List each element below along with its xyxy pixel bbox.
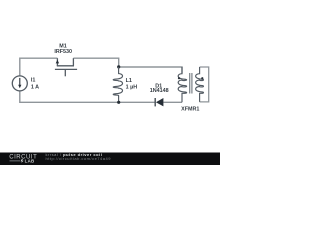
XFMR1 primary polarity dot [178,77,180,79]
svg-text:IRF530: IRF530 [54,49,72,55]
svg-text:XFMR1: XFMR1 [181,107,199,113]
current source I1 [12,76,27,91]
svg-text:1 A: 1 A [31,85,39,91]
CircuitLab logo [9,154,37,163]
node A junction dot [117,65,120,68]
wire bottom rail node B to D1 cathode [119,101,156,103]
transformer XFMR1 primary winding [178,67,186,102]
label I1 name [31,78,36,84]
wire secondary loop (XFMR1 secondary shorting loop) [200,67,209,102]
wire top-middle rail (M1 drain to node A drop) [73,58,118,67]
label D1 value 1N4148 [150,88,169,94]
wire top-right rail (node A to XFMR1 primary top) [119,67,182,73]
svg-text:1 µH: 1 µH [126,85,138,91]
node B junction dot [117,101,120,104]
footer text line 2: url [46,156,112,161]
svg-text:1N4148: 1N4148 [150,88,169,94]
wire D1 anode to XFMR1 primary bottom [163,101,182,103]
label L1 name [126,78,132,84]
wire bottom-left rail (I1 bottom to node B) [20,91,119,103]
transformer XFMR1 secondary winding [196,67,204,102]
label I1 value 1 A [31,85,39,91]
label L1 value 1 µH [126,85,138,91]
label M1 name [59,44,67,50]
inductor L1 [113,67,122,102]
transistor M1 (NMOS, gate down) [55,58,77,76]
label D1 name [155,83,162,89]
svg-text:LAB: LAB [25,159,35,164]
transformer XFMR1 core [190,73,192,94]
svg-text:L1: L1 [126,78,132,84]
XFMR1 secondary polarity dot [201,77,203,79]
footer text line 1: krrsal / pulse driver coil [46,152,103,157]
wire top-left rail (I1 top to M1 source) [20,58,58,76]
label M1 value IRF530 [54,49,72,55]
diode D1 (cathode left) [155,98,163,106]
footer bar [0,153,220,166]
svg-text:I1: I1 [31,78,36,84]
label XFMR1 name [181,107,199,113]
svg-text:http://circuitlab.com/ce74a49: http://circuitlab.com/ce74a49 [46,156,112,161]
